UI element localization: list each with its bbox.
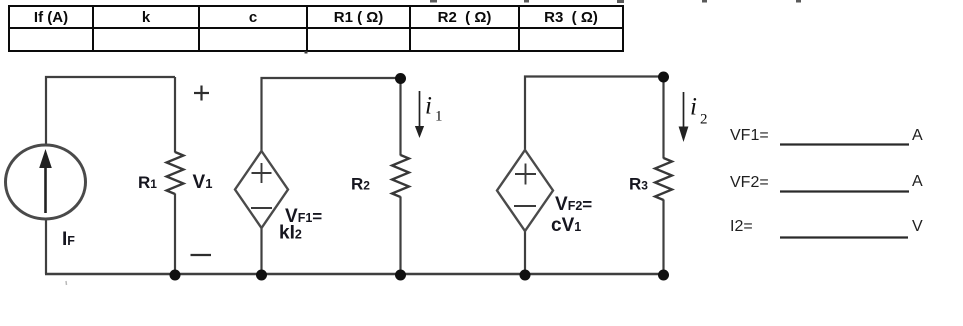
svg-text:i: i: [425, 93, 432, 120]
current source IF: [6, 145, 86, 219]
junction dot R1 bottom: [170, 270, 181, 281]
junction dot R3 top: [658, 72, 669, 83]
resistor R3: [655, 158, 672, 200]
small tick below bottom-left corner: [65, 281, 68, 285]
junction dot R2 bottom: [395, 270, 406, 281]
svg-text:V1: V1: [193, 172, 213, 193]
svg-text:VF1=: VF1=: [730, 127, 769, 144]
label VF1=kI2: [279, 206, 322, 244]
minus sign V1: [191, 254, 212, 256]
label R2: [351, 175, 370, 194]
junction dot VF1 bottom: [256, 270, 267, 281]
wire current source bottom: [45, 219, 47, 274]
label VF2=cV1: [551, 194, 592, 236]
resistor R2: [392, 155, 409, 197]
wire R2 bottom: [399, 197, 401, 275]
svg-text:VF2=: VF2=: [730, 174, 769, 191]
wire VF1 bottom: [260, 228, 262, 274]
answer label VF1: [730, 127, 769, 144]
wire VF1 top: [262, 78, 401, 151]
current arrow i1: [415, 91, 424, 138]
wire left loop top: [46, 77, 175, 146]
svg-text:1: 1: [435, 109, 443, 125]
answer line VF1: [780, 143, 909, 145]
label IF: [62, 229, 75, 250]
dependent source VF1: [235, 151, 288, 228]
wire R1 bottom: [174, 194, 176, 275]
dependent source VF2: [497, 150, 553, 231]
svg-text:VF2=: VF2=: [555, 194, 592, 215]
answer line I2: [780, 236, 908, 238]
junction dot R3 bottom: [658, 270, 669, 281]
table column separator stub artifact: [305, 51, 308, 54]
wire R3 bottom: [662, 200, 664, 275]
svg-text:cV1: cV1: [551, 215, 581, 236]
svg-text:R1: R1: [138, 173, 157, 192]
resistor R1: [167, 152, 184, 194]
plus sign V1: [194, 86, 209, 101]
wire bottom bus: [45, 273, 664, 275]
wire VF2 bottom: [524, 231, 526, 274]
junction dot VF2 bottom: [520, 270, 531, 281]
answer label VF2: [730, 174, 769, 191]
answer label I2: [730, 218, 753, 235]
label R3: [629, 175, 648, 194]
junction dot R2 top: [395, 73, 406, 84]
answer line VF2: [780, 190, 909, 192]
svg-text:kI2: kI2: [279, 223, 302, 244]
cropped text remnants at top edge: [430, 0, 801, 3]
wire VF2 top: [525, 77, 664, 151]
wire R2 top: [399, 78, 401, 156]
svg-text:IF: IF: [62, 229, 75, 250]
svg-text:2: 2: [700, 112, 708, 128]
svg-text:A: A: [912, 173, 923, 190]
answer unit A (VF2): [912, 173, 923, 190]
svg-text:i: i: [690, 94, 697, 121]
svg-text:R3: R3: [629, 175, 648, 194]
parameter table: [8, 5, 624, 52]
svg-text:R2: R2: [351, 175, 370, 194]
answer unit V (I2): [912, 218, 923, 235]
svg-text:V: V: [912, 218, 923, 235]
svg-text:A: A: [912, 127, 923, 144]
svg-text:I2=: I2=: [730, 218, 753, 235]
label V1: [193, 172, 213, 193]
wire R1 top: [174, 77, 176, 153]
answer unit A (VF1): [912, 127, 923, 144]
label i1: [425, 93, 443, 125]
wire R3 top: [662, 77, 664, 159]
label R1: [138, 173, 157, 192]
label i2: [690, 94, 708, 128]
current arrow i2: [679, 92, 689, 142]
